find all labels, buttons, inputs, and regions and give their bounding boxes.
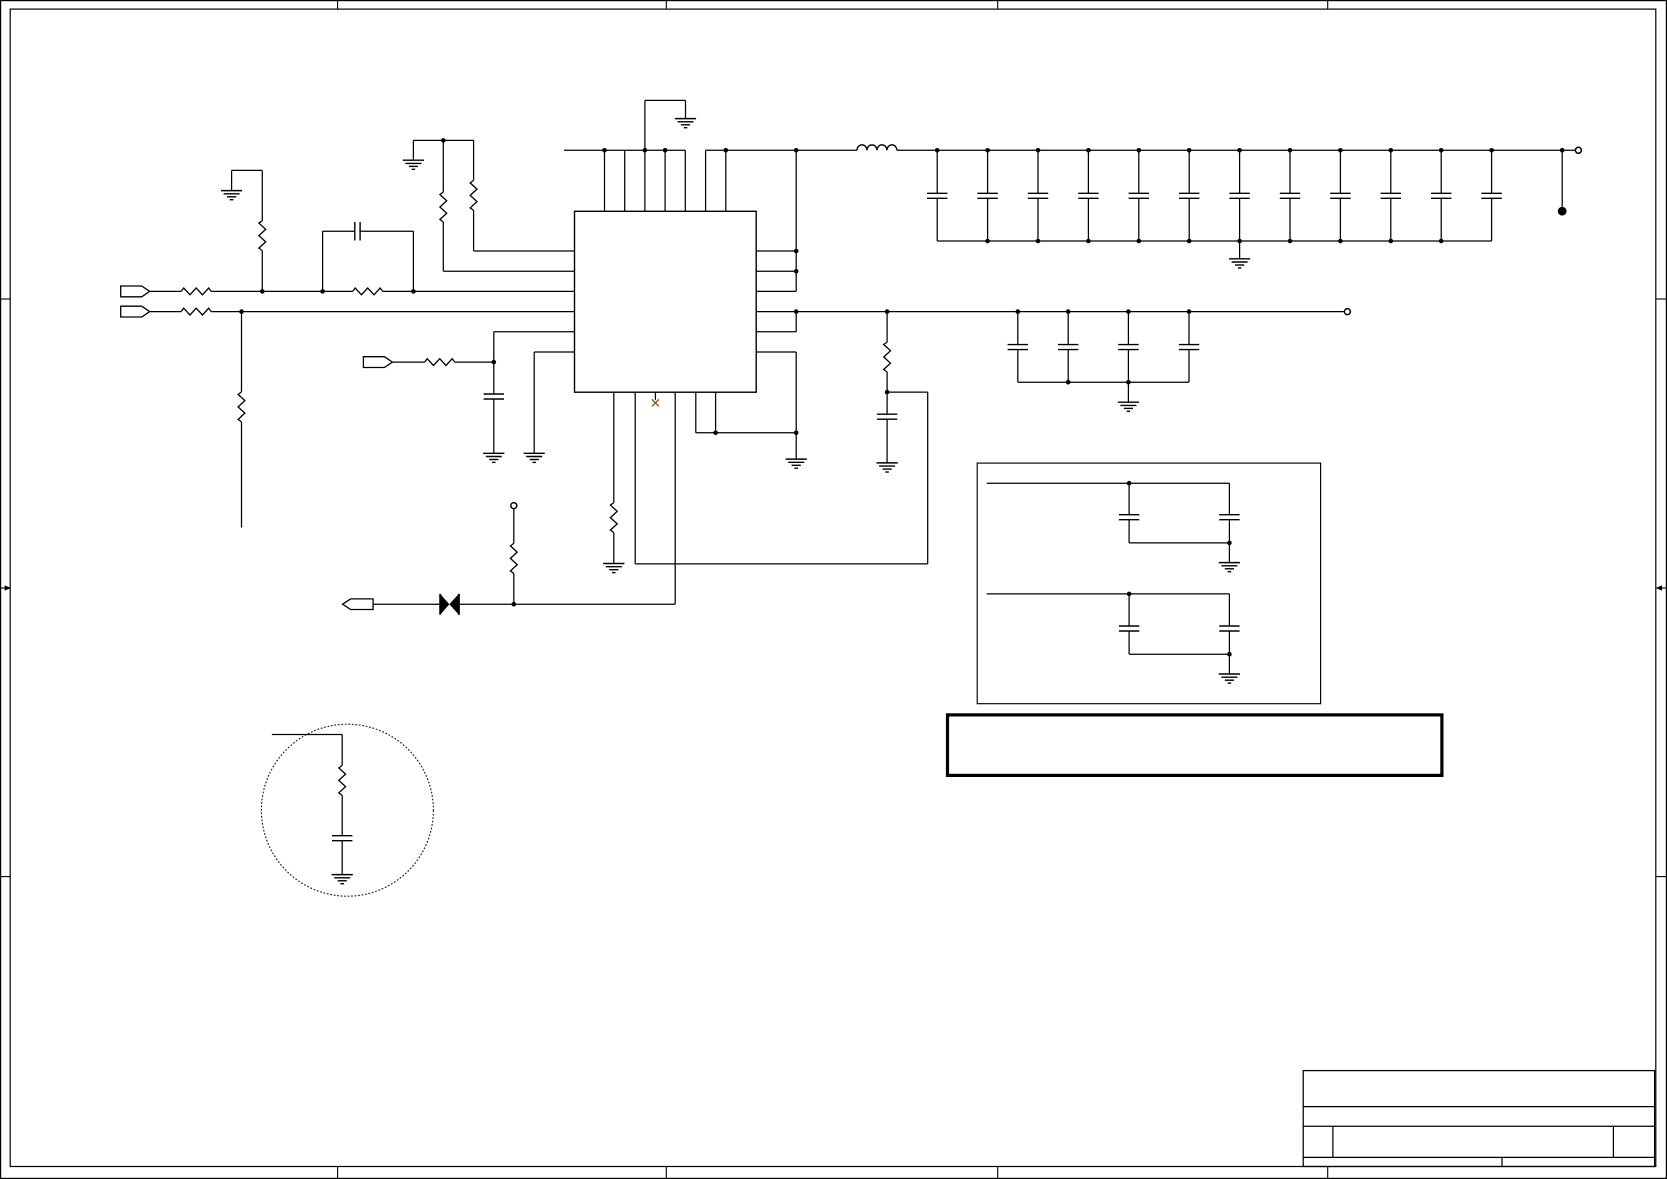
right border center arrow bbox=[1658, 587, 1666, 589]
wire U1 pin R1 bbox=[756, 250, 796, 252]
wire net1 c bbox=[383, 290, 575, 292]
wire U1 pin R6 bbox=[756, 351, 796, 353]
wire C2 to ground bbox=[493, 399, 495, 453]
wire hook top bbox=[413, 139, 473, 141]
ground G11 bbox=[1219, 562, 1240, 564]
ground G2 left chain bbox=[221, 190, 242, 192]
wire RC mid bbox=[886, 372, 888, 392]
wire U1 top pin 5 bbox=[684, 150, 686, 211]
ground G3 top bbox=[675, 118, 696, 120]
wire detail low bbox=[341, 841, 343, 875]
node bank1 bottom cap7 bbox=[1237, 239, 1242, 244]
wire right vertical upper bbox=[795, 150, 797, 291]
capacitor C21 bbox=[1228, 483, 1230, 515]
wire B2 to RC node bbox=[887, 391, 928, 393]
wire bank1 ground stem bbox=[1239, 241, 1241, 259]
wire subbox upper link bbox=[1129, 542, 1229, 544]
wire loop left bbox=[322, 231, 324, 291]
resistor R7 bbox=[425, 359, 455, 366]
ground G9 bbox=[877, 462, 898, 464]
node bank1 rail cap10 bbox=[1389, 148, 1394, 153]
capacitor C15 bank1 bbox=[1491, 150, 1493, 193]
node bank1 bottom cap3 bbox=[1036, 239, 1041, 244]
resistor R4 bbox=[259, 221, 266, 251]
capacitor C22 bbox=[1128, 594, 1130, 626]
wire RC upper bbox=[886, 312, 888, 342]
node bank2 bottom 3 bbox=[1126, 380, 1131, 385]
detail circle bbox=[261, 724, 433, 896]
wire diode to port bbox=[373, 603, 440, 605]
node bank1 bottom cap4 bbox=[1086, 239, 1091, 244]
node rail B at vertical bbox=[794, 148, 799, 153]
resistor R9 bbox=[884, 342, 891, 372]
wire bank1 bottom rail bbox=[937, 240, 1491, 242]
diode D1 TVS bbox=[439, 594, 441, 615]
node bank1 rail cap2 bbox=[985, 148, 990, 153]
node bank1 rail cap7 bbox=[1237, 148, 1242, 153]
wire net1 a bbox=[150, 290, 182, 292]
wire U1 top pin 3 bbox=[644, 150, 646, 211]
wire U1 pin R3 bbox=[756, 290, 796, 292]
open terminal net2 bbox=[1344, 309, 1350, 315]
top border zone tick 4 bbox=[1327, 1, 1329, 10]
wire subbox lower link bbox=[1129, 653, 1229, 655]
title block row line 2 bbox=[1303, 1125, 1654, 1127]
wire U1 pin R2 bbox=[756, 270, 796, 272]
wire net3 vertical bbox=[493, 332, 495, 394]
capacitor C10 bank1 bbox=[1239, 150, 1241, 193]
node bank1 rail cap12 bbox=[1489, 148, 1494, 153]
port P1 bbox=[121, 286, 150, 297]
node bank1 rail cap4 bbox=[1086, 148, 1091, 153]
resistor R12 bbox=[339, 765, 346, 795]
node net1 loop right bbox=[411, 289, 416, 294]
node bank2 rail cap1 bbox=[1016, 309, 1021, 314]
node bank1 rail cap3 bbox=[1036, 148, 1041, 153]
title block divider a bbox=[1332, 1126, 1334, 1157]
sub-circuit box bbox=[977, 463, 1320, 704]
resistor R10 bbox=[610, 503, 617, 533]
node bank1 rail cap6 bbox=[1187, 148, 1192, 153]
main IC U1 bbox=[575, 211, 757, 392]
node rail B pin7 bbox=[724, 148, 729, 153]
wire B2 across bbox=[635, 563, 928, 565]
wire U1 top pin 2 bbox=[624, 150, 626, 211]
wire hook right branch lower bbox=[473, 210, 475, 251]
resistor R5 bbox=[440, 192, 447, 222]
wire net2 a bbox=[150, 311, 182, 313]
wire R4-R5 link bbox=[795, 312, 797, 332]
no-connect X pin B3 bbox=[652, 399, 659, 406]
node subbox upper gnd bbox=[1227, 541, 1232, 546]
port P2 bbox=[121, 306, 150, 317]
resistor R3 bbox=[181, 308, 211, 315]
wire C3 to ground bbox=[886, 419, 888, 463]
wire loop top a bbox=[323, 230, 355, 232]
wire AGND hook up bbox=[644, 100, 646, 150]
ground G4 bank1 bbox=[1229, 258, 1250, 260]
capacitor C16 bank2 bbox=[1017, 312, 1019, 345]
wire loop top b bbox=[360, 230, 413, 232]
node diode net bbox=[512, 602, 517, 607]
node bank1 rail cap5 bbox=[1137, 148, 1142, 153]
node rail A pin1 bbox=[602, 148, 607, 153]
node bank2 rail cap4 bbox=[1187, 309, 1192, 314]
capacitor C24 bbox=[332, 835, 352, 837]
left border zone tick 1 bbox=[1, 298, 11, 300]
title block row line 1 bbox=[1303, 1106, 1654, 1108]
node bank2 rail cap3 bbox=[1126, 309, 1131, 314]
wire loop right bbox=[412, 231, 414, 291]
ground G7 bbox=[603, 563, 624, 565]
wire subbox lower gnd stem bbox=[1228, 654, 1230, 674]
ground G1 hook bbox=[403, 159, 424, 161]
node pin B6 bbox=[713, 431, 718, 436]
wire hook to ground bbox=[412, 140, 414, 160]
node right vertical junction bbox=[794, 431, 799, 436]
port P4 bbox=[343, 599, 374, 610]
title block row line 3 bbox=[1303, 1156, 1654, 1158]
node bank1 rail cap8 bbox=[1288, 148, 1293, 153]
title block divider b bbox=[1612, 1126, 1614, 1157]
ground G13 bbox=[332, 874, 353, 876]
wire U1 top pin 7 bbox=[725, 150, 727, 211]
wire stub lower bbox=[241, 422, 243, 528]
ground G8 bbox=[786, 458, 807, 460]
wire B2 up bbox=[927, 392, 929, 564]
wire detail in bbox=[272, 734, 342, 736]
port P3 bbox=[363, 357, 392, 368]
capacitor C2 bbox=[484, 393, 504, 395]
node bank1 rail cap11 bbox=[1439, 148, 1444, 153]
capacitor C18 bank2 bbox=[1127, 312, 1129, 345]
capacitor C4 bank1 bbox=[936, 150, 938, 193]
node bank1 bottom cap8 bbox=[1288, 239, 1293, 244]
capacitor C6 bank1 bbox=[1037, 150, 1039, 193]
wire rail end stub down bbox=[1561, 150, 1563, 207]
wire detail mid bbox=[341, 795, 343, 835]
bottom border zone tick 2 bbox=[665, 1167, 667, 1179]
wire stub upper bbox=[241, 312, 243, 392]
left border zone tick 2 bbox=[1, 876, 11, 878]
wire RC to cap bbox=[886, 392, 888, 414]
node net1 loop left bbox=[320, 289, 325, 294]
capacitor C7 bank1 bbox=[1087, 150, 1089, 193]
wire U1 pin B3 stub bbox=[654, 392, 656, 400]
wire VDD rail A bbox=[564, 149, 685, 151]
node bank1 rail cap1 bbox=[935, 148, 940, 153]
wire bank2 ground stem bbox=[1127, 382, 1129, 402]
wire left chain upper bbox=[261, 170, 263, 220]
capacitor C3 bbox=[877, 413, 897, 415]
wire net3 a bbox=[392, 361, 424, 363]
inductor L1 bbox=[857, 145, 897, 151]
node rail A pin3 bbox=[643, 148, 648, 153]
wire U1 pin B4 down bbox=[674, 392, 676, 604]
capacitor C11 bank1 bbox=[1289, 150, 1291, 193]
wire left chain hook bbox=[232, 169, 263, 171]
wire subbox upper net bbox=[987, 482, 1230, 484]
right border zone tick 2 bbox=[1656, 876, 1667, 878]
node bank1 bottom cap9 bbox=[1338, 239, 1343, 244]
wire U1 pin B2 down bbox=[634, 392, 636, 564]
ground G12 bbox=[1219, 673, 1240, 675]
capacitor C20 bbox=[1128, 483, 1130, 515]
title block outline bbox=[1303, 1071, 1654, 1167]
wire right vertical lower bbox=[795, 352, 797, 459]
bottom border zone tick 4 bbox=[1327, 1167, 1329, 1179]
wire U1 pin L5 bbox=[494, 331, 575, 333]
capacitor C5 bank1 bbox=[987, 150, 989, 193]
wire VDD rail B to cap bank bbox=[897, 149, 1575, 151]
notes box bbox=[948, 715, 1442, 776]
bottom border zone tick 3 bbox=[997, 1167, 999, 1179]
resistor R8 bbox=[238, 392, 245, 422]
node subbox upper bbox=[1127, 481, 1132, 486]
capacitor C8 bank1 bbox=[1138, 150, 1140, 193]
capacitor C23 bbox=[1228, 594, 1230, 626]
wire diode net right bbox=[459, 603, 675, 605]
wire U1 top pin 6 bbox=[705, 150, 707, 211]
wire U1 top pin 4 bbox=[664, 150, 666, 211]
wire net2 b bbox=[211, 311, 574, 313]
title block divider c bbox=[1501, 1157, 1503, 1166]
node bank1 bottom cap11 bbox=[1439, 239, 1444, 244]
wire bank2 bottom rail bbox=[1018, 381, 1189, 383]
node rail A pin4 bbox=[663, 148, 668, 153]
solid terminal dot bbox=[1558, 207, 1567, 216]
node subbox lower bbox=[1127, 592, 1132, 597]
node pin R1 bbox=[794, 249, 799, 254]
wire B5-B6 across bbox=[696, 432, 796, 434]
wire net2 right bbox=[756, 311, 1344, 313]
wire U1 pin B1 lower bbox=[613, 533, 615, 564]
wire U1 pin R5 bbox=[756, 331, 796, 333]
wire hook left branch lower bbox=[442, 222, 444, 271]
top border zone tick 3 bbox=[997, 1, 999, 10]
top border zone tick 1 bbox=[337, 1, 339, 10]
wire net3 b bbox=[455, 361, 494, 363]
node bank2 bottom 2 bbox=[1066, 380, 1071, 385]
capacitor C9 bank1 bbox=[1188, 150, 1190, 193]
node RC junction bbox=[885, 390, 890, 395]
capacitor C17 bank2 bbox=[1067, 312, 1069, 345]
wire left chain lower bbox=[261, 251, 263, 292]
node bank2 rail cap2 bbox=[1066, 309, 1071, 314]
node net2 stub bbox=[239, 309, 244, 314]
ground G5 bbox=[483, 452, 504, 454]
wire U1 top pin 1 bbox=[604, 150, 606, 211]
wire VDD rail B bbox=[706, 149, 857, 151]
wire U1 pin B5 down bbox=[695, 392, 697, 433]
top border zone tick 2 bbox=[665, 1, 667, 10]
wire U1 pin B6 down bbox=[715, 392, 717, 433]
wire testpoint upper bbox=[513, 509, 515, 544]
left border center arrow bbox=[1, 587, 9, 589]
wire testpoint lower bbox=[513, 573, 515, 604]
resistor R1 bbox=[181, 288, 211, 295]
capacitor C1 loop bbox=[354, 222, 356, 241]
wire subbox upper gnd stem bbox=[1228, 543, 1230, 563]
wire subbox lower net bbox=[987, 593, 1230, 595]
node net2 at vertical bbox=[794, 309, 799, 314]
capacitor C14 bank1 bbox=[1440, 150, 1442, 193]
node subbox lower gnd bbox=[1227, 652, 1232, 657]
right border zone tick 1 bbox=[1656, 298, 1667, 300]
open terminal VDD rail bbox=[1575, 147, 1581, 153]
node bank1 bottom cap10 bbox=[1389, 239, 1394, 244]
resistor R6 bbox=[470, 180, 477, 210]
node bank1 bottom cap6 bbox=[1187, 239, 1192, 244]
node bank1 bottom cap2 bbox=[985, 239, 990, 244]
resistor R2 bbox=[353, 288, 383, 295]
node left chain on net1 bbox=[260, 289, 265, 294]
resistor R11 bbox=[510, 543, 517, 573]
node bank1 bottom cap5 bbox=[1137, 239, 1142, 244]
capacitor C12 bank1 bbox=[1339, 150, 1341, 193]
node net2 RC chain bbox=[885, 309, 890, 314]
node bank1 rail cap9 bbox=[1338, 148, 1343, 153]
node hook bbox=[441, 138, 446, 143]
wire pin L6 down bbox=[533, 352, 535, 453]
wire U1 pin L6 bbox=[534, 351, 574, 353]
open terminal testpoint bbox=[511, 503, 517, 509]
bottom border zone tick 1 bbox=[337, 1167, 339, 1179]
ground G10 bbox=[1118, 401, 1139, 403]
ground G6 bbox=[524, 452, 545, 454]
node pin R2 bbox=[794, 269, 799, 274]
capacitor C13 bank1 bbox=[1390, 150, 1392, 193]
wire U1 pin B1 upper bbox=[613, 392, 615, 502]
node net3 bbox=[492, 360, 497, 365]
wire net1 b bbox=[211, 290, 353, 292]
wire hook left branch upper bbox=[442, 140, 444, 192]
wire hook right branch upper bbox=[473, 140, 475, 180]
node rail B end stub bbox=[1560, 148, 1565, 153]
capacitor C19 bank2 bbox=[1188, 312, 1190, 345]
